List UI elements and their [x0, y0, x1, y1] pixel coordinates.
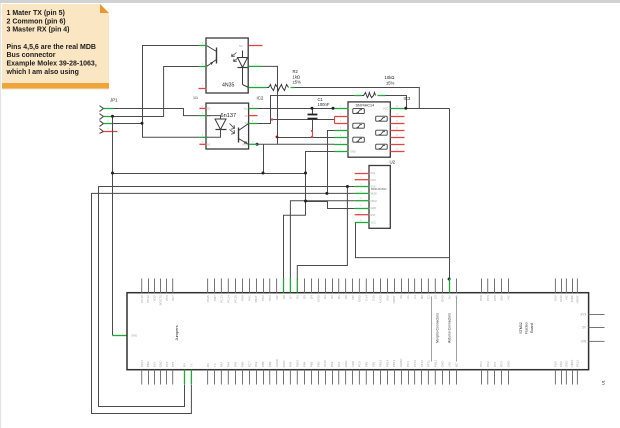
svg-text:D15: D15: [372, 295, 376, 301]
svg-text:PB15: PB15: [378, 360, 382, 368]
svg-text:Example Molex 39-28-1063,: Example Molex 39-28-1063,: [7, 61, 97, 68]
svg-text:5V: 5V: [447, 295, 451, 299]
svg-text:VIN: VIN: [581, 340, 587, 344]
svg-text:which I am also using: which I am also using: [6, 69, 79, 76]
svg-text:PA8: PA8: [289, 361, 293, 367]
svg-text:1 Mater TX (pin 5): 1 Mater TX (pin 5): [7, 10, 65, 17]
svg-text:PB14: PB14: [385, 360, 389, 368]
svg-text:10kΩ: 10kΩ: [385, 75, 395, 80]
svg-text:1kΩ: 1kΩ: [293, 74, 301, 79]
svg-text:MOSI: MOSI: [371, 193, 378, 196]
svg-text:PA13: PA13: [576, 360, 580, 367]
svg-text:PC3: PC3: [479, 361, 483, 367]
svg-text:Morpho Connectors: Morpho Connectors: [436, 313, 440, 343]
svg-text:PC2: PC2: [261, 295, 265, 301]
svg-text:RX: RX: [182, 363, 186, 367]
svg-text:PA6: PA6: [227, 361, 231, 367]
svg-text:PC5: PC5: [493, 295, 497, 301]
svg-text:PF5: PF5: [171, 361, 175, 367]
svg-text:VCC: VCC: [371, 222, 376, 225]
svg-text:D4: D4: [309, 295, 313, 299]
svg-text:PF6: PF6: [165, 295, 169, 301]
svg-text:D3: D3: [323, 295, 327, 299]
svg-text:PC6: PC6: [486, 295, 490, 301]
svg-text:PD8: PD8: [554, 361, 558, 367]
svg-text:100nF: 100nF: [318, 102, 330, 107]
svg-text:Board: Board: [530, 323, 534, 333]
svg-text:PF12: PF12: [420, 360, 424, 368]
svg-text:A0: A0: [399, 295, 403, 299]
svg-text:A4: A4: [413, 295, 417, 299]
svg-text:E5V: E5V: [554, 295, 558, 301]
svg-text:Pins 4,5,6 are the real MDB: Pins 4,5,6 are the real MDB: [7, 44, 96, 51]
svg-text:PB3: PB3: [316, 361, 320, 367]
svg-text:RFID-RC522: RFID-RC522: [371, 187, 387, 191]
svg-text:MISO: MISO: [371, 200, 377, 203]
svg-text:PC9: PC9: [358, 361, 362, 367]
svg-text:A5: A5: [454, 295, 458, 299]
svg-text:GND: GND: [316, 294, 320, 302]
svg-text:NSS: NSS: [371, 179, 376, 182]
svg-text:PF4: PF4: [165, 361, 169, 367]
svg-text:±5%: ±5%: [293, 80, 302, 85]
svg-text:PA3: PA3: [337, 361, 341, 367]
svg-text:Nucleo: Nucleo: [524, 322, 528, 333]
svg-text:4N35: 4N35: [222, 83, 235, 89]
svg-text:TX: TX: [190, 363, 194, 367]
svg-text:GND: GND: [506, 360, 510, 368]
svg-text:3 Master RX (pin 4): 3 Master RX (pin 4): [7, 27, 70, 34]
svg-text:PC12: PC12: [146, 295, 150, 303]
svg-text:PC1: PC1: [493, 361, 497, 367]
svg-text:D6: D6: [296, 295, 300, 299]
svg-text:PC10: PC10: [140, 295, 144, 303]
svg-text:PC3: PC3: [268, 295, 272, 301]
svg-text:PB4: PB4: [303, 361, 307, 367]
svg-text:AVDD: AVDD: [378, 294, 382, 303]
svg-text:PB12: PB12: [434, 360, 438, 368]
svg-text:1/1: 1/1: [193, 96, 198, 100]
svg-text:D5: D5: [303, 295, 307, 299]
svg-text:PC0: PC0: [500, 361, 504, 367]
svg-text:D2: D2: [330, 295, 334, 299]
svg-text:D7: D7: [289, 295, 293, 299]
svg-text:6n137: 6n137: [221, 113, 237, 119]
svg-text:PB13: PB13: [392, 360, 396, 368]
svg-text:NRST: NRST: [576, 295, 580, 303]
svg-text:PA10: PA10: [323, 360, 327, 367]
svg-text:AGND: AGND: [399, 358, 403, 368]
svg-text:Jumpers: Jumpers: [174, 325, 179, 340]
svg-text:C1: C1: [427, 295, 431, 299]
svg-text:B0: B0: [420, 295, 424, 299]
svg-text:PC11: PC11: [140, 360, 144, 368]
svg-text:IORF: IORF: [570, 295, 574, 302]
svg-text:PH0: PH0: [240, 295, 244, 301]
svg-text:PB8: PB8: [261, 361, 265, 367]
svg-text:GND: GND: [131, 333, 137, 337]
svg-text:Arduino Connectors: Arduino Connectors: [448, 313, 452, 343]
svg-text:PC8: PC8: [479, 295, 483, 301]
svg-text:NC: NC: [239, 44, 243, 48]
svg-text:TX: TX: [213, 363, 217, 367]
svg-text:PB7: PB7: [213, 295, 217, 301]
svg-text:NRST: NRST: [392, 295, 396, 303]
svg-text:VDD: VDD: [351, 360, 355, 367]
svg-text:GND: GND: [371, 207, 377, 210]
svg-text:RX: RX: [206, 363, 210, 367]
svg-text:±5%: ±5%: [386, 80, 395, 85]
svg-text:PC14: PC14: [227, 295, 231, 303]
svg-text:U1: U1: [602, 380, 606, 385]
svg-text:D14: D14: [365, 295, 369, 301]
svg-text:GND: GND: [441, 294, 445, 302]
svg-text:A1: A1: [406, 295, 410, 299]
svg-text:PD9: PD9: [559, 361, 563, 367]
svg-text:VBAT: VBAT: [254, 295, 258, 303]
svg-text:PF7: PF7: [171, 295, 175, 301]
svg-text:VDD: VDD: [152, 294, 156, 301]
svg-text:GND: GND: [441, 360, 445, 368]
svg-text:PA15: PA15: [206, 295, 210, 302]
svg-text:PA2: PA2: [330, 361, 334, 367]
svg-text:PH1: PH1: [247, 295, 251, 301]
svg-text:GND: GND: [350, 149, 356, 153]
svg-text:PA5: PA5: [234, 361, 238, 367]
svg-text:PF11: PF11: [427, 360, 431, 367]
svg-text:AVDD: AVDD: [275, 358, 279, 367]
svg-text:D0: D0: [344, 295, 348, 299]
svg-text:Bus connector: Bus connector: [7, 52, 56, 59]
svg-text:PA7: PA7: [220, 361, 224, 367]
svg-text:PB9: PB9: [268, 361, 272, 367]
svg-text:PB5: PB5: [309, 361, 313, 367]
svg-text:PB1: PB1: [372, 361, 376, 367]
svg-text:E5V: E5V: [152, 362, 156, 368]
svg-text:VIN: VIN: [447, 362, 451, 367]
svg-text:3V3: 3V3: [580, 312, 586, 316]
svg-text:GND: GND: [159, 360, 163, 368]
svg-text:BOOT0: BOOT0: [159, 295, 163, 306]
svg-text:GND: GND: [344, 360, 348, 368]
svg-text:VCC: VCC: [383, 107, 389, 111]
svg-text:PC4: PC4: [406, 361, 410, 367]
svg-text:GND: GND: [282, 360, 286, 368]
svg-text:U5V: U5V: [385, 295, 389, 301]
svg-text:SN74HC14: SN74HC14: [356, 104, 375, 108]
svg-text:GND: GND: [559, 294, 563, 302]
svg-text:VBAT: VBAT: [570, 359, 574, 367]
svg-text:PB2: PB2: [365, 361, 369, 367]
svg-text:STM32: STM32: [519, 322, 523, 334]
svg-text:GND: GND: [358, 294, 362, 302]
svg-text:GND: GND: [565, 360, 569, 368]
svg-text:NC: NC: [207, 144, 211, 147]
svg-text:PC15: PC15: [234, 295, 238, 303]
svg-text:IRQ: IRQ: [371, 172, 376, 175]
svg-text:PB6: PB6: [240, 361, 244, 367]
svg-text:PB10: PB10: [296, 360, 300, 368]
svg-text:PC2: PC2: [486, 361, 490, 367]
svg-text:C0: C0: [434, 295, 438, 299]
svg-text:JP1: JP1: [110, 98, 118, 103]
svg-text:IC2: IC2: [257, 96, 264, 101]
svg-text:PC13: PC13: [220, 295, 224, 303]
svg-text:U2: U2: [390, 159, 396, 164]
svg-text:RST: RST: [371, 214, 376, 217]
svg-text:NC: NC: [207, 108, 211, 111]
svg-text:U5V: U5V: [500, 295, 504, 301]
svg-text:2 Common (pin 6): 2 Common (pin 6): [7, 19, 66, 26]
svg-text:D1: D1: [337, 295, 341, 299]
svg-text:PD2: PD2: [146, 361, 150, 367]
svg-text:D8: D8: [282, 295, 286, 299]
svg-text:PF13: PF13: [413, 360, 417, 368]
svg-text:R2: R2: [293, 69, 299, 74]
svg-text:PA9: PA9: [254, 361, 258, 367]
svg-text:IC3: IC3: [404, 96, 411, 101]
svg-text:PC7: PC7: [247, 361, 251, 367]
